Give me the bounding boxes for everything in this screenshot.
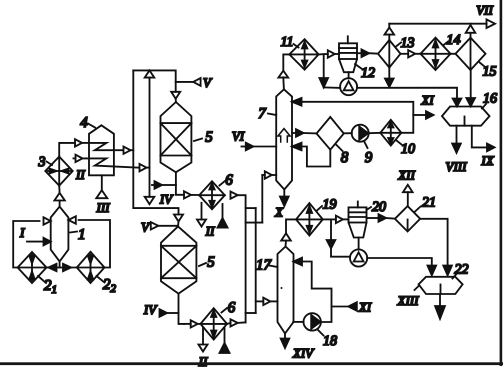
svg-text:I: I <box>19 225 25 240</box>
svg-text:4: 4 <box>80 115 88 131</box>
check valve above 15 <box>466 24 476 38</box>
svg-text:XIII: XIII <box>397 293 420 308</box>
svg-text:14: 14 <box>447 33 461 48</box>
valve after exchanger 6 bottom <box>227 319 246 326</box>
preheater 4 body <box>89 125 114 175</box>
pump 18 <box>293 313 321 330</box>
valve down into reactor 5 bottom <box>174 215 183 227</box>
label 7 <box>258 106 276 122</box>
heat exchanger 6 bottom <box>201 308 228 339</box>
svg-text:XI: XI <box>420 93 434 108</box>
svg-text:VIII: VIII <box>446 159 468 174</box>
pump below separator 20 <box>350 249 367 266</box>
wire lift vessel to column 17 feed valve <box>256 300 264 302</box>
label 20 <box>367 200 387 215</box>
stream I input arrow <box>19 225 51 245</box>
svg-text:3: 3 <box>38 155 46 170</box>
stream IV input bottom <box>143 302 179 317</box>
svg-text:21: 21 <box>44 278 57 296</box>
stream IV input top <box>152 181 176 206</box>
label 13 <box>396 36 415 51</box>
svg-text:XI: XI <box>358 300 372 315</box>
valve into coil 2 <box>76 155 83 162</box>
stream XI outlet top <box>413 93 434 119</box>
svg-text:1: 1 <box>78 227 86 243</box>
wire column 17 overhead to exchanger 19 <box>286 219 296 233</box>
check valve above column 17 <box>281 233 291 246</box>
svg-text:XII: XII <box>397 168 415 183</box>
svg-text:12: 12 <box>361 66 375 81</box>
valve into vessel 1 left <box>44 217 51 224</box>
separator 12 <box>339 36 357 78</box>
heat exchanger 2_2 <box>77 252 105 283</box>
svg-text:5: 5 <box>207 255 215 271</box>
wire exchanger 3 down to vessel 1 valve <box>58 186 60 193</box>
label XIII <box>397 286 420 308</box>
wire right loop of vessel 1 <box>79 220 110 268</box>
label 17 <box>256 258 278 274</box>
branch down to pump 20 suction <box>327 219 350 256</box>
valve before separator 20 <box>336 216 349 223</box>
column 7 <box>276 89 292 189</box>
svg-text:IV: IV <box>143 302 158 317</box>
label 21 <box>415 196 437 213</box>
label 8 <box>336 145 349 167</box>
lift vessel (flash pot) <box>246 208 263 313</box>
valve into coil 1 <box>75 139 89 146</box>
svg-text:6: 6 <box>225 173 233 189</box>
stream V input bottom <box>141 220 178 235</box>
label 5 bottom <box>199 255 215 271</box>
check valve on column 7 overhead <box>278 71 288 78</box>
valve at coil 1 outlet <box>124 147 134 154</box>
pump 12 discharge line <box>357 88 461 107</box>
wire riser header to top reactor <box>133 70 175 91</box>
wire 9 to exchanger 10 <box>369 132 381 134</box>
pump 20 discharge to mixer 22 <box>367 258 436 275</box>
svg-text:17: 17 <box>256 258 273 274</box>
check valve down on second riser <box>145 197 155 204</box>
svg-text:II: II <box>205 224 215 239</box>
label 2_1 <box>38 276 57 296</box>
mixer 16 <box>442 107 490 126</box>
wire 8 to pump 9 <box>344 132 352 134</box>
stream XII vent above 21 <box>397 168 415 207</box>
heat exchanger 3 <box>45 157 72 186</box>
coil 2 of preheater 4 <box>74 158 140 167</box>
wire second riser <box>149 78 151 197</box>
svg-text:IX: IX <box>480 153 494 168</box>
label 22 <box>453 263 469 279</box>
label 4 <box>80 115 95 131</box>
label 12 <box>355 64 375 81</box>
wire exchanger 6 top to lift vessel <box>238 195 246 322</box>
valve into column 17 <box>263 298 277 305</box>
heat exchanger 6 top <box>199 181 225 209</box>
label 19 <box>317 198 337 213</box>
wire 14 to 15 <box>451 53 456 55</box>
label 14 <box>443 33 461 48</box>
heat exchanger 14 <box>421 38 451 70</box>
label 18 <box>318 330 338 350</box>
wire overhead to exchanger 11 <box>283 54 289 70</box>
vent II below exchanger 6 bottom <box>198 328 208 370</box>
separator 20 <box>349 202 367 250</box>
reboiler loop of column 17 <box>294 258 332 322</box>
label 1 <box>70 227 86 243</box>
wire left loop of vessel 1 <box>13 221 39 268</box>
separator 15 <box>456 38 486 70</box>
stream XIV bottoms outlet <box>281 334 315 361</box>
wire 15 bottom to mixer 16 <box>466 70 475 106</box>
valve above vessel 1 <box>54 193 64 207</box>
branch down to pump suction <box>319 54 340 88</box>
wire separator 20 to separator 21 <box>367 214 395 222</box>
label 3 <box>38 155 53 170</box>
svg-text:8: 8 <box>341 150 349 166</box>
svg-text:9: 9 <box>365 150 373 166</box>
pump below separator 12 <box>340 78 357 95</box>
label 15 <box>479 62 497 80</box>
check valve up on second riser <box>145 70 155 77</box>
valve above reactor 5 top <box>171 92 180 102</box>
svg-text:II: II <box>75 167 85 182</box>
internal up arrow in column 7 <box>278 129 290 142</box>
svg-text:18: 18 <box>323 334 337 349</box>
wire 11 to separator 12 with branch <box>319 53 328 55</box>
vent II below exchanger 6 top <box>197 203 215 239</box>
svg-text:VI: VI <box>232 129 245 144</box>
coolant inlet arrow below exchanger 6 bottom <box>220 328 230 353</box>
stream VIII outlet <box>446 126 468 174</box>
wire separator 12 to exchanger 13 <box>357 49 378 57</box>
svg-text:22: 22 <box>455 263 469 278</box>
svg-text:15: 15 <box>483 65 497 80</box>
wire 13 bottom to discharge line <box>385 68 394 88</box>
label 16 <box>482 92 497 109</box>
svg-text:22: 22 <box>103 277 117 295</box>
coolant inlet arrow below exchanger 6 top <box>218 204 228 228</box>
border lines (decorative frame) <box>500 0 503 366</box>
svg-text:IV: IV <box>159 192 174 207</box>
reactor 5 bottom <box>161 226 196 293</box>
wire exchanger 3 up to preheater 4 coil 1 <box>59 143 75 157</box>
svg-text:19: 19 <box>323 198 337 213</box>
svg-text:III: III <box>96 200 111 215</box>
stream X bottoms outlet <box>274 190 289 220</box>
wire column 7 side draw to exchanger 8 <box>292 129 317 137</box>
label 10 <box>397 141 416 158</box>
valve after exchanger 6 top <box>231 192 238 199</box>
arrow toward 2_1 <box>49 264 57 271</box>
valve into vessel 1 right <box>68 216 75 223</box>
mixer 22 bottom outlet <box>435 294 445 319</box>
valve at coil 2 outlet <box>140 164 150 171</box>
wire exchanger 8 bottom recycle to column 7 <box>292 143 330 167</box>
svg-text:20: 20 <box>372 200 386 215</box>
wire column 7 overhead <box>282 77 285 89</box>
wire reactor 5 top bottom outlet <box>176 172 184 195</box>
label 11 <box>281 35 299 50</box>
separator 21 <box>395 206 420 231</box>
arrow toward 2_2 <box>63 264 71 271</box>
coil 1 of preheater 4 <box>89 143 123 150</box>
svg-text:XIV: XIV <box>292 346 315 361</box>
stream V outlet top <box>176 75 213 90</box>
svg-text:21: 21 <box>422 196 436 211</box>
label 6 bottom <box>222 300 236 316</box>
valve into column 7 <box>265 171 276 178</box>
heat exchanger 8 <box>317 117 344 150</box>
svg-text:5: 5 <box>205 130 213 146</box>
heat exchanger 10 <box>380 120 401 146</box>
column 17 <box>278 247 294 334</box>
svg-text:6: 6 <box>228 300 236 316</box>
label 6 top <box>220 173 234 189</box>
label 5 top <box>194 130 213 146</box>
wire lift line to column 7 feed valve <box>262 175 265 223</box>
stream IX outlet <box>472 126 495 168</box>
label II at exchanger 3 <box>75 167 85 182</box>
wire 10 recycle to column 7 top <box>292 98 413 133</box>
wire 21 to mixer 22 <box>420 219 452 275</box>
heat exchanger 11 <box>289 39 318 69</box>
valve before exchanger 6 top <box>184 191 199 198</box>
svg-text:10: 10 <box>401 142 415 157</box>
stream XI input bottom <box>332 300 372 315</box>
heat exchanger 19 <box>296 203 323 236</box>
svg-text:X: X <box>274 205 284 220</box>
separator 13 <box>378 40 401 68</box>
svg-text:11: 11 <box>281 35 294 50</box>
pump 9 <box>352 125 369 142</box>
valve before separator 12 <box>328 50 339 57</box>
stream VI input <box>232 129 276 151</box>
wire reactor 5 bottom outlet <box>179 294 185 324</box>
wire vessel 1 bottom to loop <box>47 261 77 267</box>
valve between 13 and 14 <box>401 50 421 57</box>
vessel 1 <box>51 207 69 262</box>
reactor 5 top <box>161 102 192 172</box>
label 9 <box>364 141 373 166</box>
wire vertical feed line left <box>133 70 178 214</box>
svg-text:VII: VII <box>476 3 493 18</box>
label 2_2 <box>97 276 117 295</box>
svg-text:7: 7 <box>258 106 267 122</box>
mixer 22 <box>419 277 463 294</box>
svg-text:16: 16 <box>483 92 497 107</box>
svg-text:V: V <box>141 220 151 235</box>
heat exchanger 2_1 <box>18 252 47 283</box>
wire 19 to separator 20 with branch <box>323 218 336 220</box>
check valve above 13 <box>385 24 395 40</box>
svg-text:V: V <box>203 75 213 90</box>
svg-text:II: II <box>198 354 208 369</box>
stream VII line <box>389 3 495 29</box>
vent III below preheater 4 <box>96 175 111 215</box>
valve before exchanger 6 bottom <box>184 320 200 327</box>
